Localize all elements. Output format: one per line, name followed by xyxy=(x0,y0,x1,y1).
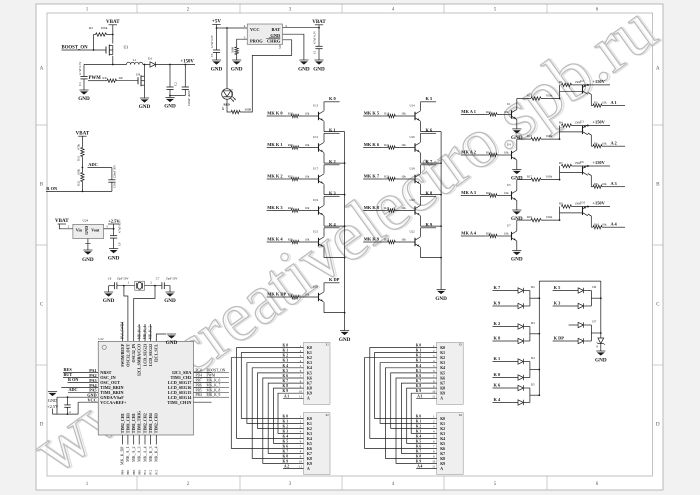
border column numbers 1-6 xyxy=(86,7,599,487)
capacitor C3 4.7uF 6.3V xyxy=(78,61,88,90)
wire pin PA4 xyxy=(61,386,98,388)
ground U4 emitter xyxy=(511,170,523,182)
wire X3.8 to X4.8 (K_7) xyxy=(401,383,436,453)
net label R_ON (mcu) xyxy=(68,377,78,382)
svg-text:U21: U21 xyxy=(313,230,319,234)
svg-text:MK_K_0: MK_K_0 xyxy=(137,325,141,339)
svg-text:K5: K5 xyxy=(307,442,312,446)
ground U7 emitter xyxy=(511,251,523,263)
wire CHRG to LED resistor xyxy=(240,40,292,112)
svg-text:MK K 0: MK K 0 xyxy=(267,110,283,115)
svg-text:R14: R14 xyxy=(486,150,492,154)
resistor R17 910k xyxy=(517,175,560,191)
svg-text:K DP: K DP xyxy=(554,335,565,340)
svg-text:K 8: K 8 xyxy=(283,454,289,458)
wire Q1 pin1 to OSC32_OUT xyxy=(124,286,128,342)
wire pin VCC xyxy=(78,401,98,403)
svg-text:PB5: PB5 xyxy=(196,388,202,392)
svg-text:910k: 910k xyxy=(546,134,553,138)
svg-text:10k: 10k xyxy=(401,238,406,242)
svg-text:A: A xyxy=(440,467,443,471)
wire Q1 pin2 to C7 xyxy=(144,285,162,287)
transistor U2 high side xyxy=(580,79,591,106)
wire pin PA1 (RES) xyxy=(63,372,98,374)
resistor R7 150k and +150V xyxy=(559,160,610,168)
wire U10 base xyxy=(560,212,583,214)
svg-text:K 6: K 6 xyxy=(416,444,422,448)
svg-text:GND: GND xyxy=(164,298,176,304)
svg-text:TIM1_TRIG: TIM1_TRIG xyxy=(137,411,142,433)
ground under R8 xyxy=(231,60,243,73)
svg-text:R17: R17 xyxy=(527,175,533,179)
junction rail D6 xyxy=(600,297,602,299)
svg-text:K 9: K 9 xyxy=(283,389,289,393)
capacitor C10 220nF xyxy=(108,164,116,191)
svg-text:K6: K6 xyxy=(440,376,445,380)
svg-text:PROG: PROG xyxy=(250,39,263,44)
pin number 4 (VCC) xyxy=(244,24,246,28)
connector X4 xyxy=(432,413,463,475)
svg-text:D: D xyxy=(656,422,660,428)
svg-text:U3: U3 xyxy=(124,46,129,50)
svg-text:VBAT: VBAT xyxy=(312,20,326,25)
ground right emitter rail xyxy=(435,290,447,303)
svg-text:A: A xyxy=(307,397,310,401)
svg-text:K 4: K 4 xyxy=(416,434,422,438)
svg-text:R24: R24 xyxy=(288,206,294,210)
wire C2 to ground xyxy=(169,96,171,98)
svg-text:MK_K_8: MK_K_8 xyxy=(207,388,221,392)
wire VBAT to U24 Vin xyxy=(59,224,73,229)
net label +150V (boost out) xyxy=(181,59,195,64)
svg-text:MK K 3: MK K 3 xyxy=(267,205,283,210)
svg-text:K3: K3 xyxy=(440,361,445,365)
svg-text:MK_K_2: MK_K_2 xyxy=(149,325,153,339)
ground mcu decoupling xyxy=(47,392,59,409)
capacitor C5 4.7uF 6.3V xyxy=(210,28,220,60)
svg-text:560R: 560R xyxy=(231,47,235,53)
svg-text:10k: 10k xyxy=(602,101,607,105)
wire X1.4 to X2.2 (K_3) xyxy=(247,363,304,424)
wire mcu right pin 3 xyxy=(194,381,212,383)
svg-text:MK_K_7: MK_K_7 xyxy=(207,383,221,387)
wire VCC down to rail xyxy=(77,402,79,414)
svg-text:U5: U5 xyxy=(278,44,282,48)
svg-text:U1: U1 xyxy=(507,102,511,106)
svg-text:GND: GND xyxy=(103,298,115,304)
ground under U8 xyxy=(139,98,151,110)
wire X3.6 to X4.3 (K_5) xyxy=(391,373,437,429)
wire GND pin xyxy=(283,34,304,60)
svg-text:GND: GND xyxy=(108,256,120,262)
wire U1 emitter xyxy=(516,119,518,128)
wire +2.5V label stub xyxy=(52,409,54,415)
svg-text:10k: 10k xyxy=(504,110,509,114)
crystal Q1 xyxy=(135,281,145,290)
inductor L1 xyxy=(127,58,143,65)
svg-text:10k: 10k xyxy=(401,112,406,116)
svg-text:PA0_SWIM: PA0_SWIM xyxy=(121,321,125,339)
junction C2 bottom xyxy=(169,95,171,97)
power flag VBAT (ADC) xyxy=(76,131,90,136)
svg-text:4.7uF 6.3V: 4.7uF 6.3V xyxy=(210,34,214,48)
wire U6 base xyxy=(560,171,583,173)
resistor R1 150k and +150V xyxy=(559,79,610,87)
svg-text:I2C1_SMBA/CCO: I2C1_SMBA/CCO xyxy=(137,344,142,376)
pin number 2 (Vin) xyxy=(68,225,70,229)
svg-text:R2: R2 xyxy=(89,26,93,30)
svg-text:U5: U5 xyxy=(507,183,511,187)
svg-text:K 7: K 7 xyxy=(494,285,502,290)
transistor U4 input MK_A_2 xyxy=(461,143,517,161)
svg-text:OSC32_OUT: OSC32_OUT xyxy=(125,343,130,366)
svg-text:GND: GND xyxy=(48,398,58,403)
svg-text:PWM: PWM xyxy=(207,373,216,377)
ground mcu top xyxy=(166,334,178,346)
charger IC U5 box xyxy=(247,24,282,49)
svg-text:R19: R19 xyxy=(384,112,390,116)
wire U7 emitter xyxy=(516,241,518,251)
svg-text:PC3: PC3 xyxy=(156,469,159,474)
wire X1.8 to X2.8 (K_7) xyxy=(268,383,303,453)
svg-text:U22: U22 xyxy=(410,230,416,234)
junction emitter rail K_6 xyxy=(440,162,442,164)
svg-text:GND: GND xyxy=(139,104,151,110)
svg-text:VCC: VCC xyxy=(250,27,260,32)
svg-text:A 1: A 1 xyxy=(611,100,617,105)
wire mcu right pin 1 xyxy=(194,372,212,374)
svg-text:K 6: K 6 xyxy=(283,444,289,448)
transistor U15 driver MK_K_1 xyxy=(267,128,345,163)
diode pair D5 (K_6/K_4) xyxy=(493,382,540,405)
svg-text:U3: U3 xyxy=(580,120,584,124)
svg-text:ADC: ADC xyxy=(69,387,78,392)
wire gnd rail down xyxy=(56,397,58,414)
junction emitter rail K_7 xyxy=(440,194,442,196)
wire right emitter rail xyxy=(440,132,442,290)
svg-text:K 2: K 2 xyxy=(329,159,336,164)
svg-text:K0: K0 xyxy=(440,346,445,350)
svg-text:I2C1_SCL: I2C1_SCL xyxy=(154,343,159,362)
svg-text:K 9: K 9 xyxy=(426,222,434,227)
svg-text:GND: GND xyxy=(231,67,243,73)
svg-text:U18: U18 xyxy=(410,167,416,171)
svg-text:K5: K5 xyxy=(307,371,312,375)
wire D1 to +150V xyxy=(155,64,195,66)
wire R2 to BOOST_ON xyxy=(93,35,95,51)
svg-text:10k: 10k xyxy=(602,182,607,186)
junction L1/D1/U8 xyxy=(144,64,146,66)
svg-text:10k: 10k xyxy=(305,175,310,179)
svg-text:MK_K_6: MK_K_6 xyxy=(207,378,221,382)
svg-text:PB6: PB6 xyxy=(196,383,202,387)
svg-text:K3: K3 xyxy=(307,432,312,436)
resistor R32 100k xyxy=(76,169,84,192)
net label BUT xyxy=(64,372,73,377)
svg-text:K 1: K 1 xyxy=(283,419,289,423)
junction rail D7 xyxy=(600,332,602,334)
svg-text:10k: 10k xyxy=(602,222,607,226)
pin number 1 (Q1) xyxy=(128,281,130,285)
svg-text:15pF 50V: 15pF 50V xyxy=(165,276,178,280)
wire pin PA5 (ADC) xyxy=(68,391,98,393)
connector X3 xyxy=(432,342,463,404)
svg-text:TIM1_CH1N: TIM1_CH1N xyxy=(167,400,191,405)
svg-text:10k: 10k xyxy=(305,143,310,147)
svg-text:U13: U13 xyxy=(313,104,319,108)
svg-text:100k: 100k xyxy=(76,169,80,176)
svg-text:100nF 400V: 100nF 400V xyxy=(187,89,191,106)
svg-text:+2.5V: +2.5V xyxy=(47,404,59,409)
svg-text:K 9: K 9 xyxy=(416,389,422,393)
svg-text:ADC: ADC xyxy=(88,162,98,167)
ground under C6 xyxy=(103,292,115,304)
transistor U3 high side xyxy=(580,120,591,147)
svg-text:K8: K8 xyxy=(440,457,445,461)
svg-text:10k: 10k xyxy=(504,191,509,195)
svg-text:C6: C6 xyxy=(108,276,112,280)
svg-text:K2: K2 xyxy=(307,356,312,360)
wire mcu right pin 4 xyxy=(194,386,212,388)
wire mcu right pin 6 xyxy=(194,396,212,398)
wire to U6 base xyxy=(559,166,561,180)
svg-text:K 3: K 3 xyxy=(283,359,289,363)
svg-text:GND: GND xyxy=(339,337,351,343)
p-mosfet U3 xyxy=(104,45,128,56)
svg-text:+150V: +150V xyxy=(593,160,606,165)
svg-text:910k: 910k xyxy=(546,94,553,98)
svg-text:K9: K9 xyxy=(307,392,312,396)
wire X3.5 to X4.9 (K_4) xyxy=(385,368,436,459)
svg-text:MK_K_3: MK_K_3 xyxy=(148,447,153,462)
svg-text:K 1: K 1 xyxy=(329,128,336,133)
svg-text:4.7uF 6.3V: 4.7uF 6.3V xyxy=(118,219,122,233)
ground under C9 xyxy=(108,249,120,262)
svg-text:K 5: K 5 xyxy=(554,285,562,290)
svg-text:R32: R32 xyxy=(76,180,80,186)
svg-text:MK K 9: MK K 9 xyxy=(364,236,380,241)
wire X3.7 to X4.10 (K_6) xyxy=(396,378,437,463)
svg-text:R23: R23 xyxy=(384,175,390,179)
svg-text:R26: R26 xyxy=(288,238,294,242)
wire pin PA0/SWIM xyxy=(121,322,123,341)
svg-text:MK K 4: MK K 4 xyxy=(267,236,283,241)
svg-text:+150V: +150V xyxy=(593,120,606,125)
wire U2 base xyxy=(560,90,583,92)
resistor R8 and net label A_3 xyxy=(591,181,625,188)
junction emitter rail K_8 xyxy=(440,225,442,227)
svg-text:K0: K0 xyxy=(440,417,445,421)
junction emitter rail K_2 xyxy=(344,194,346,196)
svg-text:K 5: K 5 xyxy=(283,369,289,373)
svg-text:C: C xyxy=(40,302,44,308)
svg-text:K7: K7 xyxy=(307,382,312,386)
svg-text:U20: U20 xyxy=(410,198,416,202)
svg-text:K 4: K 4 xyxy=(329,222,337,227)
svg-text:TIM2_CH1: TIM2_CH1 xyxy=(120,413,125,433)
svg-text:10k: 10k xyxy=(305,112,310,116)
svg-text:GND: GND xyxy=(78,96,90,102)
svg-text:C1: C1 xyxy=(313,50,317,54)
resistor R7 300R xyxy=(222,106,252,114)
resistor R8 PROG xyxy=(231,47,239,60)
pin number 2 (Q1) xyxy=(150,281,152,285)
svg-text:R4: R4 xyxy=(559,121,563,125)
svg-text:PB0: PB0 xyxy=(122,469,125,474)
svg-text:K2: K2 xyxy=(307,427,312,431)
mcu top net stubs xyxy=(137,324,152,341)
wire U8 drain xyxy=(144,65,146,77)
resistor R9 150k and +150V xyxy=(559,201,610,209)
transistor U20 driver MK_K_8 xyxy=(363,191,441,226)
power flag VBAT (regulator) xyxy=(55,219,69,224)
regulator U24 box xyxy=(73,219,104,239)
junction C11 top xyxy=(67,396,69,398)
svg-text:MK_K_9: MK_K_9 xyxy=(207,393,221,397)
svg-text:K2: K2 xyxy=(440,427,445,431)
svg-text:GND: GND xyxy=(595,358,607,364)
svg-text:K 8: K 8 xyxy=(416,454,422,458)
svg-text:R6: R6 xyxy=(594,141,598,145)
svg-text:+150V: +150V xyxy=(181,59,195,64)
svg-text:PB2: PB2 xyxy=(133,469,136,474)
ground under D8 xyxy=(595,351,607,364)
svg-text:K9: K9 xyxy=(307,462,312,466)
net label ADC xyxy=(88,162,112,168)
svg-text:BAT: BAT xyxy=(271,27,280,32)
svg-text:K 6: K 6 xyxy=(494,382,502,387)
junction rail D4 xyxy=(538,369,540,371)
node boost switch xyxy=(112,64,114,66)
svg-text:B: B xyxy=(656,182,660,188)
capacitor C2 xyxy=(166,65,177,96)
svg-text:MK_K_1: MK_K_1 xyxy=(143,325,147,339)
svg-text:R16: R16 xyxy=(486,191,492,195)
svg-text:K 6: K 6 xyxy=(283,374,289,378)
svg-text:K4: K4 xyxy=(307,366,312,370)
svg-text:K DP: K DP xyxy=(329,277,340,282)
svg-text:10k: 10k xyxy=(401,175,406,179)
svg-text:U15: U15 xyxy=(313,135,319,139)
svg-text:GND: GND xyxy=(164,104,176,110)
svg-text:K 5: K 5 xyxy=(416,439,422,443)
svg-text:K 1: K 1 xyxy=(416,349,422,353)
svg-text:MK_K_4: MK_K_4 xyxy=(154,447,159,462)
svg-text:U10: U10 xyxy=(580,201,586,205)
wire Q1 pin2 to OSC32_IN xyxy=(134,286,155,342)
mcu left pin labels xyxy=(87,368,127,405)
wire mcu right pin 7 xyxy=(194,401,212,403)
ground under C3 xyxy=(78,90,90,102)
svg-text:C7: C7 xyxy=(156,276,160,280)
svg-text:K 0: K 0 xyxy=(494,372,502,377)
transistor U5 input MK_A_3 xyxy=(461,183,517,201)
wire VBAT to U3 source xyxy=(112,25,114,44)
svg-text:GND: GND xyxy=(511,257,523,263)
svg-text:U19: U19 xyxy=(313,198,319,202)
svg-text:MK K 1: MK K 1 xyxy=(267,142,282,147)
svg-text:D7: D7 xyxy=(592,319,596,323)
svg-text:A: A xyxy=(40,66,44,72)
svg-text:B: B xyxy=(40,182,44,188)
svg-text:MK K DP: MK K DP xyxy=(267,291,286,296)
svg-text:K4: K4 xyxy=(440,366,445,370)
wire pin PA2 (BUT) xyxy=(63,376,98,378)
wire X3.9 to X4.6 (K_8) xyxy=(407,388,437,443)
svg-text:R18: R18 xyxy=(288,112,294,116)
svg-text:R25: R25 xyxy=(384,206,390,210)
wire +5V rail xyxy=(217,25,248,29)
svg-text:R ON: R ON xyxy=(46,186,58,191)
junction Q1 pin2 xyxy=(154,285,156,287)
svg-text:K 2: K 2 xyxy=(416,424,422,428)
net label +2.5V xyxy=(108,219,120,229)
pin number 3 (Vout) xyxy=(106,225,108,229)
svg-text:K7: K7 xyxy=(307,452,312,456)
wire mcu right pin 5 xyxy=(194,391,212,393)
svg-text:K8: K8 xyxy=(440,387,445,391)
junction emitter rail K_1 xyxy=(344,162,346,164)
svg-text:GND: GND xyxy=(84,226,89,235)
wire diode matrix right rail xyxy=(600,281,602,338)
ground U5 emitter xyxy=(511,210,523,222)
svg-text:A: A xyxy=(656,66,660,72)
svg-text:10k: 10k xyxy=(305,293,310,297)
transistor U21 driver MK_K_4 xyxy=(267,222,345,257)
junction ADC node xyxy=(82,167,84,169)
wire X3.3 to X4.7 (K_2) xyxy=(365,358,437,449)
net label A_3 xyxy=(416,394,437,398)
svg-text:4.7uF 6.3V: 4.7uF 6.3V xyxy=(313,30,317,44)
svg-text:K 3: K 3 xyxy=(416,359,422,363)
svg-text:K4: K4 xyxy=(307,437,312,441)
svg-text:10k: 10k xyxy=(305,206,310,210)
wire top gnd stub xyxy=(156,334,166,341)
svg-text:A 4: A 4 xyxy=(611,222,618,227)
transistor U13 driver MK_K_0 xyxy=(267,96,345,131)
wire X3.2 to X4.1 (K_1) xyxy=(375,353,437,419)
junction 910k/U2 xyxy=(559,98,561,100)
svg-text:K8: K8 xyxy=(307,387,312,391)
svg-text:K 4: K 4 xyxy=(494,397,502,402)
diode pair D6 (K_5/K_3) xyxy=(553,285,601,309)
resistor R3 and net label A_1 xyxy=(591,100,625,107)
junction +5V/LED rail xyxy=(226,27,228,29)
junction 910k/U3 xyxy=(559,138,561,140)
junction 910k/U6 xyxy=(559,179,561,181)
resistor R30 xyxy=(103,77,138,83)
svg-text:K 2: K 2 xyxy=(494,321,501,326)
wire X1.9 to X2.6 (K_8) xyxy=(274,388,304,443)
wire to U3 base xyxy=(559,126,561,140)
svg-text:PWM: PWM xyxy=(89,76,102,81)
wire diode matrix left rail xyxy=(538,281,540,395)
net label RES xyxy=(63,367,76,373)
svg-text:300R: 300R xyxy=(245,108,253,112)
svg-text:K 5: K 5 xyxy=(426,96,434,101)
svg-text:TIM2_CH2: TIM2_CH2 xyxy=(142,413,147,433)
svg-text:MK K 5: MK K 5 xyxy=(364,110,380,115)
svg-text:K3: K3 xyxy=(440,432,445,436)
wire R31 to node xyxy=(81,157,83,173)
net label PWM xyxy=(88,76,104,81)
wire LED cathode to R7 xyxy=(227,99,231,112)
svg-text:K 7: K 7 xyxy=(283,449,289,453)
svg-text:MK A 1: MK A 1 xyxy=(461,109,476,114)
wire X1.6 to X2.3 (K_5) xyxy=(258,373,304,429)
svg-text:A 2: A 2 xyxy=(284,464,289,468)
svg-text:A 1: A 1 xyxy=(284,394,289,398)
